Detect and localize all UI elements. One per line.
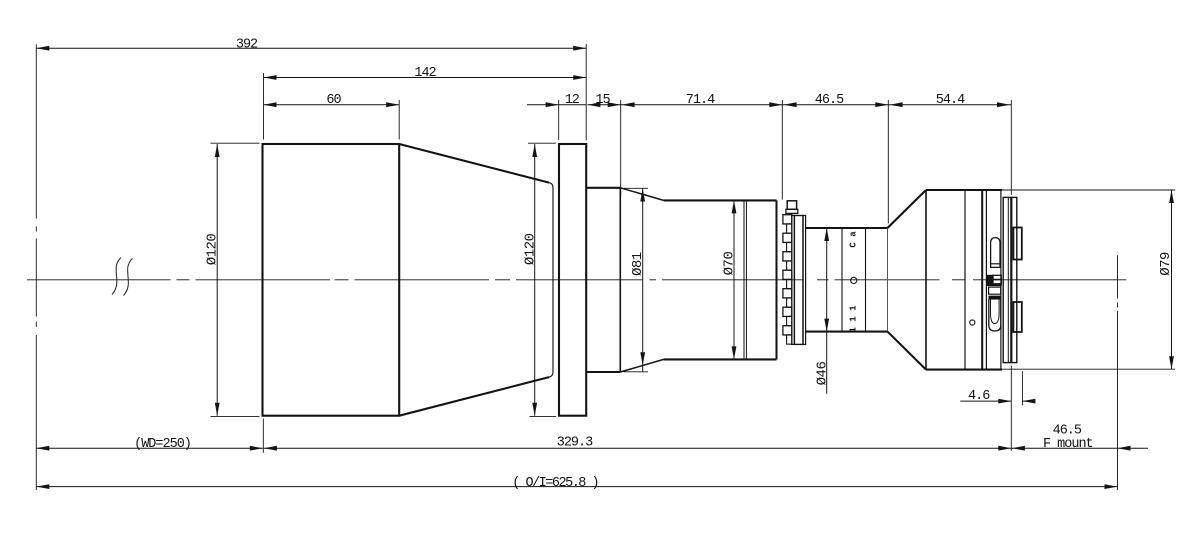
wire break squiggle right: [124, 259, 133, 296]
rear expanding cone: [888, 190, 927, 370]
diameter dimension phi120 flange: [522, 143, 556, 416]
dimension 329.3 lens length: [264, 435, 1011, 450]
extension line flange face lower: [1010, 366, 1012, 451]
svg-text:4.6: 4.6: [968, 389, 990, 404]
extension line front vertex lower: [262, 419, 264, 453]
chamfer ring 81 to 70: [620, 188, 663, 372]
upper slot in mount band: [991, 238, 1000, 268]
svg-text:142: 142: [414, 66, 436, 81]
extension line bayonet lug face: [1021, 371, 1023, 405]
svg-text:46.5: 46.5: [1053, 423, 1082, 438]
dimension WD=250 working distance: [36, 437, 262, 452]
dimension 46.5 aperture section: [782, 93, 888, 108]
diameter dimension phi70: [722, 200, 738, 359]
svg-text:46.5: 46.5: [815, 93, 844, 108]
wire break squiggle left: [112, 258, 121, 295]
F-mount flange plate: [1003, 197, 1017, 362]
extension line phi81 stub end: [620, 100, 622, 197]
lock knob on gear ring: [786, 201, 798, 214]
rear ring divider thin: [985, 190, 987, 370]
svg-text:1 1 1: 1 1 1: [849, 305, 859, 333]
mount band right edge: [1000, 190, 1002, 370]
small window below latch: [989, 287, 1001, 294]
diameter dimension phi46: [814, 228, 830, 394]
rear ring divider thick: [981, 190, 983, 370]
node object plane line: [35, 44, 37, 490]
dimension O/I total conjugate: [36, 476, 1117, 491]
index dot on phi46 barrel: [851, 277, 857, 283]
dimension 142 front to flange rear: [264, 66, 587, 81]
dimension 15 with arrows: [587, 93, 620, 108]
extension line F-mount flange face upper: [1010, 100, 1012, 195]
extension line rear cone start: [887, 100, 889, 223]
dimension 4.6 flange to lug: [960, 389, 1035, 404]
svg-text:60: 60: [326, 93, 341, 108]
extension line flange front: [558, 100, 560, 140]
phi46 aperture barrel: [806, 228, 888, 332]
dimension 392 overall front length: [36, 38, 586, 53]
gear ring teeth: [783, 215, 792, 344]
diameter dimension phi79: [1002, 190, 1175, 369]
center latch cluster: [987, 275, 1002, 285]
svg-text:Ø79: Ø79: [1158, 252, 1174, 276]
extension line right of 392-142 at flange rear: [585, 44, 587, 141]
extension line gear ring front: [781, 100, 783, 200]
svg-text:( O/I=625.8 ): ( O/I=625.8 ): [512, 476, 598, 491]
svg-text:F mount: F mount: [1043, 437, 1093, 452]
gear ring body: [792, 216, 806, 345]
svg-text:392: 392: [236, 38, 258, 53]
svg-text:Ø81: Ø81: [630, 252, 646, 276]
svg-text:(WD=250): (WD=250): [134, 437, 191, 452]
mounting flange plate 12mm: [559, 144, 586, 416]
dimension 46.5 F mount flange distance: [1011, 423, 1148, 452]
node image plane line: [1117, 255, 1119, 490]
svg-text:12: 12: [565, 93, 580, 108]
svg-text:15: 15: [595, 93, 610, 108]
phi81 stub section: [586, 188, 620, 372]
bayonet lug upper: [1013, 228, 1021, 260]
bayonet lug lower: [1013, 302, 1021, 332]
diameter dimension phi120 front: [205, 143, 260, 416]
dark bar: [989, 296, 1001, 299]
rear phi79 cylinder: [926, 190, 1002, 370]
dimension 12 flange width outside arrows: [527, 93, 586, 108]
svg-text:Ø120: Ø120: [522, 233, 538, 265]
svg-text:54.4: 54.4: [936, 93, 965, 108]
svg-text:C a: C a: [849, 231, 859, 248]
dimension 54.4 rear section: [888, 93, 1011, 108]
dimension 71.4 focus barrel: [621, 93, 783, 108]
lower slot in mount band: [989, 299, 1001, 331]
svg-text:Ø120: Ø120: [205, 234, 221, 266]
wire centerline horizontal axis: [27, 279, 1126, 281]
extension line at front vertex for 142 and 60: [263, 73, 265, 140]
front barrel phi120 outline: [263, 144, 400, 416]
svg-text:Ø46: Ø46: [814, 362, 830, 386]
diameter dimension phi81: [624, 188, 649, 372]
front cone taper: [399, 144, 553, 416]
svg-text:71.4: 71.4: [686, 93, 715, 108]
svg-text:329.3: 329.3: [557, 435, 593, 450]
dimension 60 front barrel length: [264, 93, 400, 108]
extension line at taper start: [398, 100, 400, 140]
svg-text:Ø70: Ø70: [722, 252, 738, 276]
phi70 focus barrel: [664, 200, 777, 359]
screw dot on rear ring: [970, 320, 975, 325]
